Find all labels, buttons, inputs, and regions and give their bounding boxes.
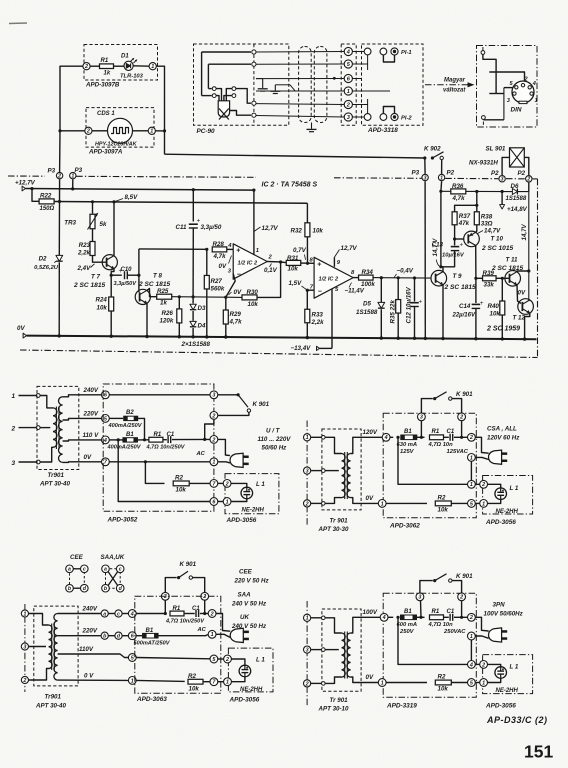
svg-text:10k: 10k [189,685,200,692]
neon module box APD-3056 [483,476,533,515]
svg-text:T 8: T 8 [153,273,162,280]
svg-text:4: 4 [469,662,473,668]
svg-text:110 V: 110 V [83,432,100,439]
terminal 6 [102,391,110,399]
svg-text:500mAT/250V: 500mAT/250V [134,641,171,647]
junction [205,248,208,251]
resistor R35 [397,278,399,300]
svg-text:2: 2 [57,173,61,179]
svg-text:2 SC 1815: 2 SC 1815 [73,282,105,289]
svg-text:1: 1 [482,501,485,507]
svg-text:3: 3 [420,415,423,421]
pin 2 of APD-3319 [468,613,476,621]
secondary tap 220V [58,635,101,637]
junction [396,616,399,619]
svg-text:1: 1 [440,175,443,181]
terminal 6 of APD-3318 [344,74,352,82]
mains pin 1 [304,434,311,441]
svg-text:DIN: DIN [511,107,522,114]
240V row to pin 3 [109,394,210,396]
wire pin1 to primary [29,614,49,626]
svg-text:APD-3318: APD-3318 [367,127,398,134]
jumper terminal b [101,632,108,639]
pin 6 of APD-3052 [210,498,218,506]
secondary tap 110V [58,654,129,658]
fuse B2 [124,416,138,420]
cartridge body (phono element) [218,101,229,117]
svg-text:Tr 901: Tr 901 [330,697,349,704]
svg-text:K 902: K 902 [424,146,441,153]
junction [419,616,422,619]
svg-text:R34: R34 [362,269,374,276]
pin P3-3 [422,174,428,180]
secondary tap 110V [63,440,102,441]
pin 5 of APD-3063 [128,654,136,662]
junction [397,276,400,279]
connector pin [364,114,371,121]
switch K901 of APD-3063 [165,578,176,593]
fuse B1 [388,616,393,618]
svg-text:125VAC: 125VAC [447,449,469,455]
jumper terminal d [115,632,122,639]
T8 base column wire [138,249,140,292]
link under PI-1 pair [383,55,394,62]
transformer box Tr901 [34,606,78,686]
resistor R22 [39,199,54,204]
svg-text:125V: 125V [400,449,415,455]
resistor R2 [435,501,451,506]
resistor R38 [474,212,479,225]
resistor R36 [451,189,466,194]
left vertical wire in PC-90 [201,52,203,96]
junction [58,200,61,203]
svg-text:10k: 10k [176,487,187,494]
wire header to R38 [476,205,478,212]
solder pad bottom-left [482,116,486,120]
module box APD-3319 [383,593,476,697]
neon lamp L1 [488,664,501,667]
wire R37 to T10 base node [454,225,456,239]
svg-text:0V: 0V [234,289,242,296]
svg-text:APD-3097A: APD-3097A [88,149,123,156]
stub from pin 4 down [367,55,369,70]
svg-text:AP-D33/C (2): AP-D33/C (2) [486,715,548,725]
capacitor C1 [163,439,167,441]
svg-text:R30: R30 [247,289,259,296]
wire lamp row to live node [398,437,468,484]
wire pin2 to primary [311,502,322,504]
svg-text:4,7Ω 10n: 4,7Ω 10n [428,442,454,448]
pin 4 lower of APD-3319 [468,661,476,669]
primary winding [342,454,346,498]
svg-text:NE-2HH: NE-2HH [496,509,519,515]
svg-text:10k: 10k [438,507,449,514]
svg-text:R2: R2 [438,495,446,502]
wire T12 collector to right rail [529,299,530,301]
pin 1 of APD-3056 [480,500,488,508]
wire K902 to P3 pin 3 [424,158,426,174]
switch K901 [218,394,238,396]
wire T8 emitter to 0V rail [146,304,148,338]
wire to plug lower prong [218,462,230,463]
junction [460,436,463,439]
svg-text:4,7Ω 10n: 4,7Ω 10n [428,622,454,628]
svg-text:0,7V: 0,7V [293,247,307,254]
svg-text:R1: R1 [173,606,181,612]
svg-text:CDS 1: CDS 1 [97,111,115,117]
svg-text:1: 1 [381,680,384,686]
svg-text:SL 901: SL 901 [486,146,506,153]
vertical wire [503,88,505,120]
DIN pin 3 [513,92,516,95]
svg-text:R1: R1 [432,429,440,435]
svg-text:APT 30-40: APT 30-40 [35,702,66,709]
wire pin1 to primary [311,617,322,619]
pc-90 terminal [252,113,256,117]
svg-text:PC-90: PC-90 [197,128,216,135]
wire R2 to pin 7 [203,681,210,683]
wire TR3 to R23 [92,229,94,242]
secondary winding [54,614,58,681]
svg-text:−: − [318,288,322,295]
svg-text:250V: 250V [399,629,415,635]
svg-text:+: + [236,248,240,255]
svg-text:1S1588: 1S1588 [506,196,527,202]
terminal 2 of APD-3097B [83,63,90,70]
svg-text:B1: B1 [126,432,134,438]
dash-dot pin column [306,421,308,527]
resistor R2 [188,679,203,684]
wire switch pin 3 down [420,601,423,618]
resistor R23 [90,242,95,256]
svg-text:14,7V: 14,7V [484,228,501,235]
wire T11 collector to right rail [517,270,529,273]
transistor T9 2SC1815 [431,270,447,286]
module box APD-3097A [86,108,154,148]
wire pin6 to pin1 [218,501,223,503]
svg-text:3: 3 [501,177,504,183]
svg-text:L 1: L 1 [256,657,265,664]
transformer box Tr901 [37,386,79,469]
wire R39 to T11 base [496,277,509,279]
svg-text:R2: R2 [188,673,196,680]
svg-text:10µ/16V: 10µ/16V [442,253,465,259]
svg-text:8,5V: 8,5V [125,194,139,201]
svg-text:2: 2 [22,678,26,684]
svg-text:2: 2 [305,501,309,507]
svg-text:2: 2 [210,611,214,617]
svg-text:12,7V: 12,7V [341,245,358,252]
svg-text:400mA/250V: 400mA/250V [107,444,142,450]
wire T11 emitter to T12 base [517,285,521,304]
wire switch to pin 2 [218,412,249,415]
wire row 6 inside [352,78,361,80]
svg-text:R36: R36 [452,183,464,190]
pin 2 of APD-3063 [201,592,209,600]
pin 2 of APD-3056 [224,655,232,663]
junction on 0V rail [191,335,194,338]
svg-text:14,7V: 14,7V [521,223,528,240]
cable sheath 2 [314,47,327,123]
resistor R1 [149,437,163,442]
junction on 0V rail [501,337,504,340]
svg-text:2: 2 [526,177,530,183]
wire row 1 inside [352,90,390,92]
junction on 0V rail [523,337,526,340]
jumper terminal a [101,610,108,617]
svg-text:1,5V: 1,5V [289,280,303,287]
wire R2 to pin 5 [451,502,467,504]
svg-text:240 V 50 Hz: 240 V 50 Hz [231,600,267,607]
svg-text:4,7Ω 10n/250V: 4,7Ω 10n/250V [165,619,205,625]
svg-text:C14: C14 [459,303,471,310]
svg-text:2: 2 [305,681,309,687]
mains pin 2 [304,680,311,687]
0V row [109,461,210,463]
wire down to R22 [32,189,39,202]
svg-text:D5: D5 [363,300,371,307]
terminal 2 of APD-3097A [85,127,92,134]
svg-text:2: 2 [225,481,229,487]
transistor T12 2SC1959 [518,299,534,315]
wire T7 collector to 8,5V line [113,202,115,256]
wire C1 to pin 2 (AC) [172,438,210,440]
svg-text:+: + [460,242,464,249]
resistor R1 [100,64,114,69]
ground stub 1 in PC-90 [262,79,264,89]
capacitor C14 [475,278,477,303]
svg-text:1: 1 [212,460,215,466]
wire T9 collector up [441,191,443,271]
0V row inside [136,680,185,681]
pin P2-1 [438,174,444,180]
module box APD-3318 [362,44,424,125]
junction on row 6 [333,77,336,80]
svg-text:TLR-103: TLR-103 [120,74,144,80]
svg-text:PI-2: PI-2 [401,116,412,122]
module box APD-3063 [135,596,221,693]
svg-text:1: 1 [23,611,26,617]
svg-text:220 V 50 Hz: 220 V 50 Hz [234,577,270,584]
pin 2 (mains) of APD-3063 [208,610,216,618]
svg-text:APD-3056: APD-3056 [226,517,257,524]
op-amp1 supply stub pin 1 [253,190,255,255]
svg-text:NX-9331H: NX-9331H [469,160,498,167]
svg-text:4,7Ω 10n/250V: 4,7Ω 10n/250V [146,444,186,450]
svg-text:a: a [68,567,71,573]
wire row 5 inside [352,63,367,65]
diode D3 [192,297,194,304]
wire SL901 left to P2 pin 3 [502,157,509,175]
wire P2-2 down / right rail top [528,183,530,192]
CEE jumper diagram [70,569,85,588]
terminal 7 [102,458,110,466]
mains plug [230,628,243,642]
svg-text:UK: UK [240,614,249,621]
wire C13 to T9 collector node [441,251,455,267]
svg-text:4: 4 [382,615,386,621]
svg-text:R2: R2 [438,674,446,681]
cross mark in cartridge [219,109,229,120]
svg-text:R32: R32 [291,228,303,235]
wire lamp row to live node [398,617,468,664]
svg-text:K 901: K 901 [253,401,270,408]
svg-text:−0,4V: −0,4V [397,268,414,275]
svg-text:D6: D6 [511,183,519,190]
pin 1 of APD-3062 [468,454,476,462]
svg-text:P2: P2 [491,170,499,177]
wire SL901 right to P2 pin 2 [524,157,529,175]
junction [144,460,147,463]
svg-text:47k: 47k [458,220,470,227]
wire K902 to P2 pin 1 [441,160,443,174]
svg-text:c: c [117,611,120,617]
svg-text:c: c [119,567,122,573]
junction [91,200,94,203]
+12,7V rail [26,189,254,191]
svg-text:Tr901: Tr901 [48,472,65,479]
svg-text:2: 2 [84,64,88,70]
pin 5 (lamp) of APD-3063 [210,655,218,663]
wire 8,5V to TR3 [92,202,94,214]
wire pin7 to pin2 [218,482,223,484]
DIN pin 4 [528,86,531,89]
svg-text:+12,7V: +12,7V [15,179,36,186]
svg-text:Tr 901: Tr 901 [330,518,349,525]
neon module box APD-3056 [483,655,533,694]
svg-text:4,7k: 4,7k [452,195,466,202]
core [344,632,346,679]
pin 1 of APD-3062 transformer side [378,500,386,508]
svg-text:NE-2HH: NE-2HH [242,508,265,514]
module box APD-3062 [383,413,476,518]
zener diode D2 [56,255,63,261]
110V row inside [136,658,210,659]
svg-text:R29: R29 [230,311,242,318]
svg-text:D1: D1 [121,54,129,60]
svg-text:22µ/16V: 22µ/16V [452,313,476,319]
svg-text:560k: 560k [211,286,225,293]
wire [133,130,149,132]
svg-text:2: 2 [481,662,485,668]
module box PC-90 [194,44,289,125]
lamp SL901 [510,148,525,167]
110V row [109,439,122,441]
junction [178,295,181,298]
cable sheath 1 [299,47,312,123]
svg-text:2 SC 1815: 2 SC 1815 [138,281,170,288]
wire from APD-3097A terminal 1 [155,130,164,132]
svg-text:50/60 Hz: 50/60 Hz [262,444,288,451]
junction T9 collector / C13 [439,265,442,268]
svg-text:1: 1 [226,680,229,686]
svg-text:R2: R2 [175,475,183,482]
junction [192,295,195,298]
junction on 0V rail [178,335,181,338]
scan noise texture [0,0,1,1]
svg-text:1: 1 [482,680,485,686]
junction on 0V rail [397,337,400,340]
junction on 0V rail [145,335,148,338]
wire R32 to + input node [306,237,308,263]
svg-text:T 11: T 11 [506,257,518,264]
svg-text:0V: 0V [366,495,374,502]
wire from P3-1 to +12,7V rail [72,179,74,189]
op-amp2 supply stub pin 9 [333,257,335,267]
pin 4 of APD-3319 [380,613,388,621]
svg-text:110V: 110V [79,646,94,653]
svg-text:0 V: 0 V [84,672,94,679]
op-amp1 output pin 2 [267,261,280,263]
pin 6 of APD-3063 [128,632,136,640]
svg-text:APD-3097B: APD-3097B [85,82,120,89]
svg-text:3: 3 [424,175,427,181]
svg-text:120V 60 Hz: 120V 60 Hz [487,435,520,442]
resistor R29 [225,297,227,310]
R2 branch from 0V row [145,462,164,484]
wire to plug upper prong [218,439,230,455]
svg-text:1k: 1k [160,300,167,307]
capacitor C1 [444,436,449,438]
wire row 1 in PC-90 [202,51,251,53]
wire C1 to pin 2 [454,616,468,618]
svg-text:C1: C1 [167,432,175,438]
svg-text:3: 3 [212,393,215,399]
svg-text:2: 2 [459,595,463,601]
svg-text:B1: B1 [146,628,154,634]
svg-text:R38: R38 [481,213,493,220]
terminal 1 of APD-3097B [149,63,156,70]
wire R34 to T9 base [373,277,431,280]
SAA/UK jumper diagram [106,569,121,588]
stub from pin 2 up [367,99,369,113]
svg-text:10k: 10k [438,686,449,693]
svg-text:L 1: L 1 [510,664,519,671]
wire C11 down to bias row [192,228,194,297]
220V row with fuse B1 [136,635,142,637]
svg-text:100V: 100V [363,609,378,616]
svg-text:0,1V: 0,1V [264,267,278,274]
svg-text:1: 1 [306,435,309,441]
svg-text:+: + [480,300,484,307]
svg-text:400mA/250V: 400mA/250V [108,423,143,429]
pc-90 terminal [252,50,256,54]
secondary tap 0V [351,677,379,683]
svg-text:600 mA: 600 mA [397,622,418,628]
svg-text:a: a [103,611,106,617]
DIN pin 1 [530,92,533,95]
wire switch pin 2 down [461,601,463,618]
svg-text:110 ... 220V: 110 ... 220V [258,436,292,443]
wire row 3 inside [352,116,364,118]
mains plug [489,628,502,642]
svg-text:1: 1 [131,678,134,684]
svg-text:151: 151 [524,742,553,762]
svg-text:4: 4 [384,435,388,441]
terminal 4 [102,436,110,444]
junction [137,274,140,277]
terminal strip of APD-3318 [341,44,356,125]
svg-text:1/2 IC 2: 1/2 IC 2 [238,261,258,267]
wire [90,65,99,67]
svg-text:1: 1 [256,248,259,254]
junction on 0V rail [205,335,208,338]
svg-text:1: 1 [12,393,16,400]
svg-text:változat: változat [443,88,466,94]
op-amp1 pin 3 wire [226,274,235,298]
svg-text:1: 1 [470,482,473,488]
svg-text:R28: R28 [213,241,225,248]
